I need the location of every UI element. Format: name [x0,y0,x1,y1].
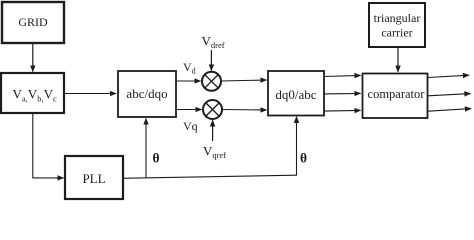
wire comparator output 1 [428,75,469,77]
wire dq0/abc to comparator (c) [324,109,361,112]
wire Va,Vb,Vc to abc/dqo [64,93,116,95]
wire triangular carrier to comparator [397,47,399,72]
svg-text:θ: θ [300,150,307,165]
block PLL [65,156,123,199]
block abc/dqo [118,71,176,117]
multiplier X1 [202,72,221,91]
wire theta riser to dq0/abc [296,117,298,176]
svg-text:abc/dqo: abc/dqo [126,86,167,101]
wire theta riser to abc/dqo [145,119,147,178]
wire dq0/abc to comparator (a) [324,75,361,76]
svg-text:PLL: PLL [82,171,105,186]
wire comparator output 2 [428,94,471,96]
wire Vdref into multiplier 1 [210,50,212,71]
wire comparator output 3 [428,109,471,112]
wire abc/dqo to multiplier 2 [176,109,202,111]
block dq0/abc [268,71,324,116]
svg-text:triangular: triangular [374,11,421,25]
wire dq0/abc to comparator (b) [324,92,361,95]
wire Va,Vb,Vc down to PLL [33,113,64,178]
svg-text:θ: θ [153,150,160,165]
wire Vqref into multiplier 2 [212,120,214,141]
svg-text:Vd: Vd [183,60,196,76]
wire abc/dqo to multiplier 1 [176,80,201,82]
svg-text:carrier: carrier [381,26,412,40]
wire multiplier 1 to dq0/abc [221,80,267,81]
svg-text:comparator: comparator [368,87,426,101]
multiplier X2 [203,100,222,119]
wire GRID to Va,Vb,Vc [32,43,34,72]
wire multiplier 2 to dq0/abc [222,109,267,112]
block GRID [2,2,64,43]
svg-text:dq0/abc: dq0/abc [275,87,316,102]
svg-text:GRID: GRID [18,15,48,29]
svg-text:Vq: Vq [183,119,198,133]
block triangular carrier [369,3,425,47]
svg-text:Vdref: Vdref [202,34,225,51]
block comparator [363,74,428,119]
svg-text:Va,Vb,Vc: Va,Vb,Vc [13,87,57,104]
svg-text:Vqref: Vqref [203,144,226,161]
wire PLL theta bus [123,175,297,178]
block Va,Vb,Vc [1,73,64,113]
